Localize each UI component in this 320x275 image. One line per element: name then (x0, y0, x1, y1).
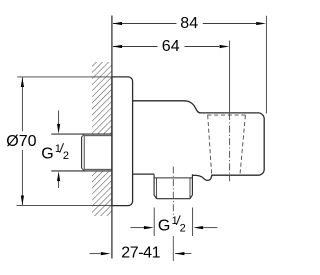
dimension D70 (17, 77, 113, 206)
svg-text:64: 64 (162, 38, 180, 55)
dimension 64 (113, 41, 230, 114)
dimension G1/2 wall (51, 111, 81, 189)
svg-text:2: 2 (180, 222, 186, 234)
dimension 84 (113, 16, 266, 114)
holder arm top contour (133, 101, 265, 181)
flange (escutcheon) (112, 77, 133, 206)
svg-text:27-41: 27-41 (121, 245, 160, 262)
svg-text:G: G (41, 146, 53, 163)
svg-text:G: G (158, 218, 170, 235)
svg-text:2: 2 (63, 150, 69, 162)
wall hatching lower (92, 172, 112, 216)
svg-text:84: 84 (180, 15, 198, 32)
arm bottom edge left of nipple (133, 173, 155, 175)
cone center line (229, 113, 231, 181)
pipe G1/2 wall thread (51, 134, 112, 171)
svg-text:Ø70: Ø70 (6, 133, 36, 150)
wall hatching upper (92, 62, 112, 134)
wall surface line (111, 16, 113, 259)
cone dashed lines (207, 115, 245, 175)
svg-text:1: 1 (55, 143, 61, 155)
svg-text:1: 1 (172, 215, 178, 227)
dimension G1/2 nipple (131, 208, 218, 237)
nipple outlet (154, 174, 192, 199)
nipple center line (172, 167, 174, 262)
dimension 27-41 (90, 253, 192, 255)
